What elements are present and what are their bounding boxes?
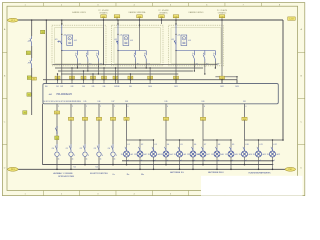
- wire contact drop in G1: [76, 62, 78, 68]
- svg-text:6: 6: [167, 106, 168, 108]
- wire lamp feeder 4: [244, 104, 246, 140]
- wire feeder continues in G3: [175, 51, 177, 67]
- svg-text:39: 39: [211, 154, 213, 156]
- auxiliary contact K4 in G3: [214, 51, 216, 53]
- svg-text:ORMARIC: ORMARIC: [159, 11, 168, 14]
- wire drop from bus: [139, 20, 141, 27]
- wire lamp drop H7: [202, 140, 204, 148]
- wire PLC input drop: [117, 80, 119, 84]
- wire bottom bus N2: [43, 164, 274, 166]
- auxiliary contact K3 in G1: [87, 51, 89, 53]
- svg-text:x1: x1: [58, 159, 60, 161]
- inner panel G2: [114, 28, 161, 64]
- svg-text:39: 39: [225, 154, 227, 156]
- svg-text:-Y2: -Y2: [79, 148, 82, 150]
- svg-text:39: 39: [253, 154, 255, 156]
- wire PLC input drop: [115, 80, 117, 84]
- svg-text:x1: x1: [154, 160, 156, 162]
- svg-text:-H2: -H2: [144, 154, 147, 156]
- svg-text:x1: x1: [167, 160, 169, 162]
- svg-text:-H12: -H12: [276, 154, 280, 156]
- svg-text:x1: x1: [141, 160, 143, 162]
- svg-text:D16: D16: [98, 101, 101, 103]
- svg-text:x1: x1: [232, 160, 234, 162]
- node PE tag right: [285, 167, 296, 171]
- svg-text:x1: x1: [86, 159, 88, 161]
- wire output column 3: [98, 104, 100, 144]
- svg-text:39: 39: [134, 154, 136, 156]
- wire column left long: [31, 68, 33, 115]
- wire lamp drop H5: [179, 140, 181, 148]
- inner panel G1: [55, 28, 104, 64]
- wire bottom bus N1: [122, 160, 273, 162]
- fuse F1: [30, 58, 32, 68]
- auxiliary contact K2 in G3: [193, 51, 195, 53]
- wire contact to bus: [76, 66, 78, 68]
- svg-text:2: 2: [114, 106, 115, 108]
- dashed enclosure G1: [52, 25, 106, 66]
- wire tag output 2: [82, 117, 87, 121]
- wire lamp drop H4: [165, 140, 167, 148]
- pin labels DO row: [44, 101, 246, 103]
- svg-text:D15: D15: [84, 101, 87, 103]
- indicator lamp H2: [137, 151, 143, 157]
- aux contact lamp H3: [152, 144, 157, 151]
- wire feeder into G3: [175, 20, 177, 24]
- wire feeder into G2: [117, 20, 119, 24]
- wire tag stub: [221, 18, 223, 20]
- node tag 11: [41, 30, 45, 34]
- inner panel G3: [171, 28, 221, 64]
- wire lamp feeder 1: [126, 104, 128, 140]
- wire lamp to bus: [216, 157, 218, 169]
- svg-text:b: b: [203, 53, 204, 55]
- svg-text:ELEKTROVENTILE: ELEKTROVENTILE: [90, 173, 108, 175]
- wire feeder 176 to PLC: [175, 67, 177, 84]
- indicator lamp H11: [256, 151, 262, 157]
- indicator lamp H3: [151, 151, 157, 157]
- aux contact lamp H5: [178, 144, 183, 151]
- svg-text:D17: D17: [112, 101, 115, 103]
- svg-text:6: 6: [204, 106, 205, 108]
- wire contact to bus: [87, 66, 89, 71]
- svg-text:-H10: -H10: [248, 154, 252, 156]
- svg-text:4.6: 4.6: [194, 144, 196, 146]
- wire lamp drop H10: [244, 140, 246, 148]
- svg-text:hr2: hr2: [96, 166, 99, 169]
- wire PLC input drop: [149, 80, 151, 84]
- wire column 24V feed: [45, 20, 47, 84]
- svg-text:39: 39: [239, 154, 241, 156]
- wire tag stub: [103, 18, 105, 20]
- wire feeder continues in G1: [61, 51, 63, 67]
- svg-text:PM-4000/EU/O: PM-4000/EU/O: [57, 94, 73, 96]
- wire PLC input drop: [57, 80, 59, 84]
- wire tag 106: [219, 15, 225, 18]
- svg-text:DI11: DI11: [174, 86, 177, 88]
- wire lamp drop H8: [216, 140, 218, 148]
- wire lamp group rail 4: [245, 139, 284, 141]
- wire tag stub: [161, 18, 163, 20]
- wire lower rail in G2: [118, 50, 146, 52]
- svg-text:DI6: DI6: [103, 86, 106, 88]
- svg-text:4.4: 4.4: [167, 144, 169, 146]
- wire drop from bus: [103, 20, 105, 24]
- wire tag stub: [139, 18, 141, 20]
- PLC module A1: [43, 84, 278, 104]
- wire lamp drop H11: [258, 140, 260, 148]
- wire drop 139.5 into box2: [139, 24, 141, 51]
- svg-text:KABINE SREDINA: KABINE SREDINA: [129, 11, 146, 14]
- wire right feeder join: [282, 139, 284, 141]
- svg-text:D19: D19: [165, 101, 168, 103]
- svg-text:-Y1: -Y1: [65, 148, 68, 150]
- valve coil Y1: [65, 144, 75, 157]
- wire lamp drop H3: [153, 140, 155, 148]
- wire PLC input drop: [83, 80, 85, 84]
- wire contact drop in G3: [214, 62, 216, 68]
- svg-text:b: b: [134, 53, 135, 55]
- svg-text:3: 3: [88, 155, 89, 157]
- wire feeder into G1: [61, 20, 63, 24]
- dashed enclosure G2: [112, 25, 164, 66]
- wire tag 103: [137, 15, 143, 18]
- wire lamp drop H2: [139, 140, 141, 148]
- wire to bottom bus: [70, 157, 72, 169]
- wire lamp drop H1: [126, 140, 128, 148]
- wire right feeder drop: [282, 20, 284, 140]
- wire lamp to bus: [258, 157, 260, 169]
- wire output column 0: [56, 104, 58, 144]
- wire tag input: [91, 76, 96, 79]
- wire contact drop in G2: [145, 62, 147, 68]
- wire step bus 0: [53, 63, 218, 65]
- indicator lamp H12: [270, 151, 276, 157]
- auxiliary contact K2 in G2: [135, 51, 137, 53]
- valve coil Y0: [51, 144, 61, 157]
- aux contact lamp H9: [229, 144, 234, 151]
- wire tag 102: [114, 15, 120, 18]
- wire tag input: [128, 76, 133, 79]
- wire PLC input drop: [129, 80, 131, 84]
- wire lamp to bus: [230, 157, 232, 169]
- svg-text:x1: x1: [273, 160, 275, 162]
- svg-text:DI13: DI13: [235, 86, 238, 88]
- wire to bottom bus: [56, 157, 58, 169]
- svg-text:-K1: -K1: [114, 39, 117, 41]
- svg-text:DI8: DI8: [117, 86, 120, 88]
- node tag 25: [23, 111, 27, 115]
- node L1 supply tag: [8, 18, 19, 22]
- aux contact lamp H6: [191, 144, 196, 151]
- svg-text:b: b: [86, 53, 87, 55]
- svg-text:2: 2: [74, 155, 75, 157]
- wire lamp to bus: [192, 157, 194, 169]
- wire PLC input drop: [236, 80, 238, 84]
- wire coil bottom in G2: [117, 47, 119, 51]
- wire bottom bus PE: [18, 168, 285, 170]
- wire column Q1: [31, 20, 33, 36]
- wire tag left of PLC: [32, 77, 37, 80]
- title block blank panel: [201, 176, 303, 196]
- wire feeder 61.8 to PLC: [61, 67, 63, 84]
- wire lamp drop H6: [192, 140, 194, 148]
- svg-text:x1: x1: [72, 159, 74, 161]
- wire lower rail in G1: [62, 50, 99, 52]
- node tag 17: [27, 76, 31, 80]
- svg-text:-K1: -K1: [171, 39, 174, 41]
- svg-text:b: b: [97, 53, 98, 55]
- svg-text:2: 2: [58, 106, 59, 108]
- wire drop from bus: [221, 20, 223, 24]
- svg-text:ANTRIEBE KG: ANTRIEBE KG: [170, 171, 184, 174]
- svg-text:+24: +24: [119, 34, 122, 36]
- wire tag input: [113, 76, 118, 79]
- wire tag stub: [116, 18, 118, 20]
- svg-text:D14: D14: [78, 101, 81, 103]
- wire output column 1: [70, 104, 72, 144]
- svg-text:+24: +24: [63, 34, 66, 36]
- wire lamp group rail 3: [203, 139, 231, 141]
- svg-text:KABINE LINKS: KABINE LINKS: [72, 11, 86, 14]
- wire tag output 3: [96, 117, 101, 121]
- svg-text:DI1: DI1: [56, 86, 59, 88]
- svg-text:39: 39: [187, 154, 189, 156]
- wire tag 101: [101, 15, 107, 18]
- svg-text:ORMARIC: ORMARIC: [99, 11, 108, 14]
- indicator lamp H9: [228, 151, 234, 157]
- svg-text:DI3: DI3: [71, 86, 74, 88]
- aux contact lamp H1: [125, 144, 130, 151]
- svg-text:D20: D20: [202, 101, 205, 103]
- svg-text:4.9: 4.9: [232, 144, 234, 146]
- svg-text:5: 5: [116, 155, 117, 157]
- wire PLC input drop: [92, 80, 94, 84]
- svg-text:x1: x1: [180, 160, 182, 162]
- wire drop 103.5 long: [103, 24, 105, 64]
- wire tag output 1: [68, 117, 73, 121]
- svg-text:x1: x1: [218, 160, 220, 162]
- svg-text:DI2: DI2: [61, 86, 64, 88]
- indicator lamp H8: [214, 151, 220, 157]
- wire PLC input drop: [45, 80, 47, 84]
- wire contact to bus: [204, 66, 206, 74]
- svg-text:4: 4: [102, 155, 103, 157]
- svg-text:-K4: -K4: [74, 40, 77, 42]
- svg-text:+24: +24: [177, 34, 180, 36]
- svg-text:-Y3: -Y3: [93, 148, 96, 150]
- svg-text:x1: x1: [204, 160, 206, 162]
- svg-text:-K4: -K4: [188, 40, 191, 42]
- svg-text:39: 39: [121, 154, 123, 156]
- svg-text:SPRÜHSYSTEM: SPRÜHSYSTEM: [58, 175, 74, 178]
- auxiliary contact K3 in G3: [204, 51, 206, 53]
- relay contact K1 in G3: [174, 41, 176, 48]
- relay contact K1 in G2: [116, 41, 118, 48]
- wire output column 4: [112, 104, 114, 144]
- indicator lamp H1: [124, 151, 130, 157]
- svg-text:4.11: 4.11: [259, 144, 262, 146]
- svg-text:b: b: [192, 53, 193, 55]
- wire lamp to bus: [165, 157, 167, 165]
- wire to bottom bus: [98, 157, 100, 169]
- svg-text:-H8: -H8: [221, 154, 224, 156]
- svg-text:b: b: [213, 53, 214, 55]
- wire lamp feeder 2: [165, 104, 167, 140]
- svg-text:DI10: DI10: [148, 86, 151, 88]
- wire top supply bus: [18, 19, 283, 21]
- node tag 21: [27, 93, 31, 97]
- svg-text:ANTRIEBE RE/LI: ANTRIEBE RE/LI: [208, 171, 224, 174]
- indicator lamp H4: [163, 151, 169, 157]
- relay contact K1 in G1: [58, 41, 62, 48]
- wire PLC input drop: [175, 80, 177, 84]
- wire contact to bus: [145, 66, 147, 68]
- svg-text:D18: D18: [125, 101, 128, 103]
- wire tag feeder 2: [163, 117, 168, 121]
- wire tag input: [220, 76, 225, 79]
- svg-text:4.1: 4.1: [127, 144, 129, 146]
- wire contact drop in G3: [204, 62, 206, 68]
- valve coil Y3: [93, 144, 103, 157]
- svg-text:-Y4: -Y4: [107, 148, 110, 150]
- svg-text:-H4: -H4: [170, 154, 173, 156]
- wire tag stub: [175, 18, 177, 20]
- wire contact drop in G1: [97, 62, 99, 68]
- wire contact to bus: [135, 66, 137, 68]
- svg-text:-H1: -H1: [130, 154, 133, 156]
- svg-text:-K4: -K4: [130, 40, 133, 42]
- node tag right: [288, 17, 296, 21]
- svg-text:DI4: DI4: [82, 86, 85, 88]
- wire contact to bus: [214, 66, 216, 68]
- svg-text:4.7: 4.7: [204, 144, 206, 146]
- wire to bottom bus: [112, 157, 114, 165]
- svg-text:AUSBAU 1 / BÜHNE: AUSBAU 1 / BÜHNE: [53, 172, 73, 175]
- wire tag feeder 3: [200, 117, 205, 121]
- svg-text:-Y0: -Y0: [51, 148, 54, 150]
- svg-text:DI9: DI9: [129, 86, 132, 88]
- auxiliary contact K2 in G1: [76, 51, 78, 53]
- wire lamp to bus: [179, 157, 181, 169]
- wire lamp to bus: [153, 157, 155, 169]
- aux contact lamp H4: [164, 144, 169, 151]
- wire jog to DI 237: [215, 76, 237, 78]
- wire tag 105: [173, 15, 179, 18]
- aux contact lamp H8: [215, 144, 220, 151]
- svg-text:4.2: 4.2: [141, 144, 143, 146]
- svg-text:D21: D21: [243, 101, 246, 103]
- aux contact lamp H10: [243, 144, 249, 151]
- wire contact drop in G1: [87, 62, 89, 68]
- node tag 29: [55, 136, 59, 140]
- wire lamp drop H9: [230, 140, 232, 148]
- wire contact to bus: [97, 66, 99, 74]
- svg-text:-H11: -H11: [262, 154, 266, 156]
- svg-text:DI0: DI0: [45, 86, 48, 88]
- svg-text:39: 39: [160, 154, 162, 156]
- dashed enclosure G3: [169, 25, 224, 66]
- wire lamp drop H12: [272, 140, 274, 148]
- wire PLC input drop: [71, 80, 73, 84]
- svg-text:4.3: 4.3: [154, 144, 156, 146]
- svg-text:39: 39: [197, 154, 199, 156]
- node PE tag left: [8, 167, 19, 171]
- svg-text:2: 2: [86, 106, 87, 108]
- wire contact to bus: [193, 66, 195, 71]
- wire tag input: [148, 76, 153, 79]
- svg-text:2: 2: [100, 106, 101, 108]
- svg-text:KABINE DESNO: KABINE DESNO: [188, 11, 203, 14]
- svg-text:1: 1: [60, 155, 61, 157]
- svg-text:x1: x1: [100, 159, 102, 161]
- svg-text:4.10: 4.10: [245, 144, 248, 146]
- contactor coil M in G1: [67, 35, 73, 46]
- svg-text:6: 6: [128, 106, 129, 108]
- wire tag feeder 1: [124, 117, 129, 121]
- svg-text:39: 39: [148, 154, 150, 156]
- svg-text:x1: x1: [127, 160, 129, 162]
- node tag 13: [26, 51, 30, 55]
- svg-text:ORMARIC: ORMARIC: [218, 11, 227, 14]
- svg-text:DI5: DI5: [92, 86, 95, 88]
- svg-text:DI12: DI12: [220, 86, 223, 88]
- wire PLC input drop: [103, 80, 105, 84]
- wire 0V return: [42, 104, 44, 165]
- wire drop 222 long: [221, 24, 223, 84]
- wire lamp group rail 1: [127, 139, 154, 141]
- auxiliary contact K4 in G1: [97, 51, 99, 53]
- wire output column 2: [84, 104, 86, 144]
- wire lamp to bus: [244, 157, 246, 165]
- contactor coil M in G2: [123, 35, 129, 46]
- wire PLC input drop: [221, 80, 223, 84]
- svg-text:4.8: 4.8: [218, 144, 220, 146]
- wire step bus 1: [55, 67, 203, 69]
- aux contact lamp H12: [271, 144, 277, 151]
- wire lamp to bus: [139, 157, 141, 169]
- svg-text:HUB/SENK/FAHRWERK: HUB/SENK/FAHRWERK: [248, 171, 271, 174]
- wire tag output 4: [110, 117, 115, 121]
- wire step bus 3: [61, 73, 178, 75]
- wire feeder 118 to PLC: [117, 67, 119, 84]
- outer border frame: [2, 3, 304, 196]
- wire lamp to bus: [126, 157, 128, 165]
- svg-text:4.12: 4.12: [273, 144, 276, 146]
- valve coil Y2: [79, 144, 89, 157]
- wire tag output 0: [54, 111, 59, 115]
- wire drop from bus: [161, 20, 163, 24]
- wire coil bottom in G1: [61, 47, 63, 51]
- valve coil Y4: [107, 144, 117, 157]
- wire feeder continues in G2: [117, 51, 119, 67]
- svg-text:-K1: -K1: [55, 39, 58, 41]
- wire tag input: [55, 76, 60, 79]
- wire column Q1 lower: [31, 46, 33, 58]
- wire PLC input drop: [61, 80, 63, 84]
- svg-text:6: 6: [246, 106, 247, 108]
- wire tag input: [174, 76, 179, 79]
- auxiliary contact K3 in G2: [145, 51, 147, 53]
- wire coil bottom in G3: [175, 47, 177, 51]
- aux contact lamp H2: [138, 144, 143, 151]
- disconnect switch Q1: [30, 36, 32, 46]
- wire lower rail in G3: [176, 50, 215, 52]
- wire tag input: [70, 76, 75, 79]
- svg-text:-H9: -H9: [235, 154, 238, 156]
- border row ticks and labels: [2, 28, 304, 169]
- wire lamp to bus: [272, 157, 274, 169]
